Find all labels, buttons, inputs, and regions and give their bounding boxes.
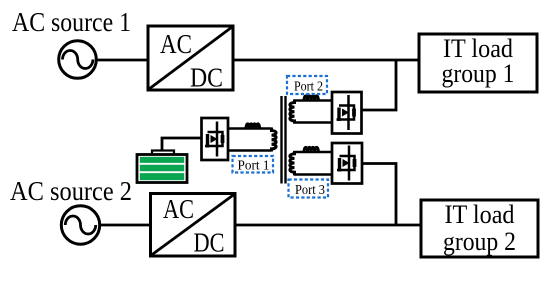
IT load group 2 box bbox=[421, 200, 538, 257]
wire U1 to port-1 winding (top, with inductor L1) bbox=[228, 124, 272, 129]
transformer core bbox=[282, 96, 286, 184]
svg-text:Port 2: Port 2 bbox=[294, 80, 323, 95]
IT load group 1 box bbox=[419, 34, 537, 92]
converter U2 bbox=[332, 92, 362, 134]
converter U1 (battery DC/DC) bbox=[202, 118, 229, 160]
wire V2 to AC/DC 2 bbox=[100, 224, 153, 227]
wire U3 output to bus 2 bbox=[362, 164, 396, 225]
svg-text:DC: DC bbox=[190, 63, 223, 93]
wire W2 to U2 (top, inductor L2) bbox=[294, 96, 333, 101]
svg-text:Port 1: Port 1 bbox=[238, 159, 270, 174]
transformer winding W3 (port 3 side) bbox=[290, 151, 295, 175]
wire U2 output to bus 1 bbox=[362, 61, 397, 110]
inductor L2 bbox=[304, 96, 318, 101]
wire V1 to AC/DC 1 bbox=[96, 59, 149, 62]
transformer winding W1 (port 1 side) bbox=[272, 128, 277, 152]
svg-text:group 2: group 2 bbox=[443, 227, 516, 256]
svg-text:DC: DC bbox=[194, 228, 225, 258]
wire W3 to U3 (top, inductor L3) bbox=[294, 147, 333, 152]
port 1 label box bbox=[233, 156, 274, 174]
wire W2 bottom return bbox=[294, 121, 333, 124]
battery B1 bbox=[137, 151, 187, 183]
svg-text:group 1: group 1 bbox=[442, 59, 515, 88]
converter U3 bbox=[332, 143, 362, 184]
wire battery to converter U1 bbox=[162, 138, 202, 151]
svg-text:AC: AC bbox=[163, 194, 194, 224]
AC source V1 bbox=[59, 41, 97, 79]
svg-text:Port 3: Port 3 bbox=[295, 183, 325, 198]
wire bus 1 : AC/DC 1 to IT load group 1 bbox=[233, 59, 419, 62]
AC source V2 bbox=[61, 206, 99, 244]
transformer winding W2 (port 2 side) bbox=[290, 100, 295, 124]
wire U1 bottom return bbox=[228, 149, 272, 152]
svg-text:AC source 1: AC source 1 bbox=[12, 7, 131, 37]
port 3 label box bbox=[289, 180, 329, 199]
converter AC/DC 2 bbox=[151, 194, 236, 258]
svg-text:AC source 2: AC source 2 bbox=[10, 176, 132, 206]
inductor L1 bbox=[246, 124, 260, 129]
port 2 label box bbox=[287, 76, 327, 95]
converter AC/DC 1 bbox=[148, 26, 233, 93]
wire W3 bottom return bbox=[294, 173, 333, 176]
svg-text:AC: AC bbox=[160, 29, 192, 59]
wire bus 2 : AC/DC 2 to IT load group 2 bbox=[235, 224, 421, 227]
inductor L3 bbox=[304, 147, 318, 152]
svg-text:IT load: IT load bbox=[445, 200, 515, 229]
